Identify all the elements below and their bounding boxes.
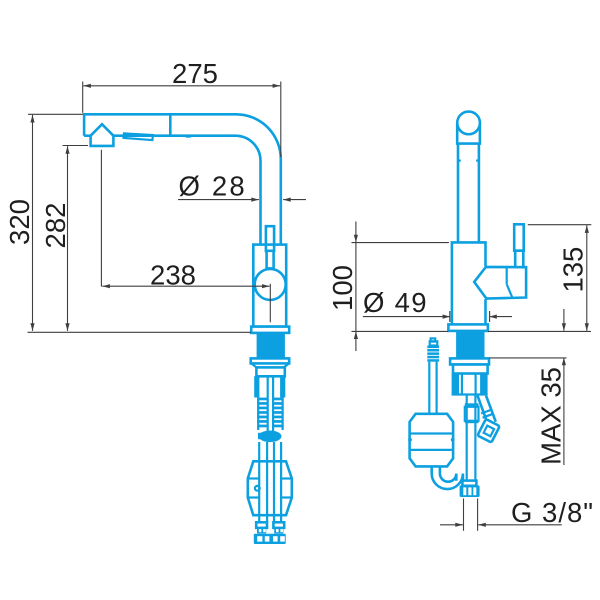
dim 135 arrow top [585,225,589,233]
weight side dots [408,438,412,442]
nut taper right [284,363,289,367]
dim 275 arrow right [273,84,281,88]
pipe left edge [457,144,460,243]
dim G3/8 left tail [440,524,463,526]
dim G3/8 ext right [477,499,479,531]
deck extension right view left segment [352,330,449,332]
left hose cap [430,341,438,345]
dim 275 ext right [280,82,282,158]
svg-text:Ø 49: Ø 49 [363,287,428,318]
svg-text:100: 100 [327,265,358,311]
spout cap circle [457,112,480,135]
dim diameter 49 arrow right-pointing [443,315,451,319]
dim 238 ext vertical from spray head [100,150,102,287]
G3/8 coupling nut [460,485,480,497]
cartridge stem upper [266,226,274,251]
hose connector nut left [256,522,267,528]
dim 135 arrow bottom [585,323,589,331]
dim 238 leader line [102,285,269,287]
dim MAX35 lower tail [563,358,565,465]
dim MAX35 ext line [490,357,567,359]
deck extension line left view [28,331,251,333]
dim diameter 49 line [363,316,450,318]
spray hose crossbars [481,410,492,414]
hose connector block right [274,528,283,534]
dim 238 arrow left [102,284,110,288]
dim 238 center drop line [269,284,271,323]
hose lines below blob and through octagon [258,442,260,522]
left hose tube [428,362,430,414]
cap sides [457,123,480,144]
dim diameter 49 ext tick left [449,311,451,322]
hose clip blob [259,431,282,443]
thread dashes left column [257,398,267,428]
dim 282 arrow top [65,146,69,154]
thread column edges [257,398,259,430]
handle boss [474,267,526,299]
svg-text:282: 282 [40,203,71,249]
dim G3/8 arrow right-pointing [455,523,463,527]
U-bend hose outer [432,466,463,489]
threaded shank (solid) [257,333,285,359]
sleeve bar left [254,376,259,397]
middle tube fitting band [465,403,479,407]
coupling collar [462,481,476,486]
valve circle [255,269,286,300]
deck extension right view right segment [488,330,591,332]
left hose top nub [431,338,436,341]
inner tube lines in sleeve [461,374,463,395]
dim 282 ext top [63,145,89,147]
dim diameter 49 tail right [489,316,512,318]
pipe joint ticks [458,160,461,162]
octagon face line lower right [281,496,292,498]
dim MAX35 arrow up at nut bottom [562,358,566,366]
hose weight barrel [410,414,454,467]
lever handle upper [514,224,524,250]
nut lower section [453,365,488,374]
pipe right edge [478,144,481,243]
dim 100 arrow down [354,235,358,243]
dim diameter 28 line right part [283,199,306,201]
dim diameter 28 arrow left-pointing [283,198,291,202]
svg-text:320: 320 [4,199,35,245]
spray hose diagonal [478,396,489,426]
thread dashes right column [273,398,283,428]
dim 238 arrow right [262,284,270,288]
lever handle lower [515,251,523,268]
mounting nut flange [251,358,290,363]
weight line upper [410,432,454,434]
dim 275 ext left [82,82,84,113]
sleeve bar right [280,376,285,397]
weight line lower [410,449,454,451]
middle tube fitting lower band [465,421,479,424]
boss inner vertical [506,267,508,284]
deck flange [251,327,289,333]
middle tube fitting block [465,407,479,421]
hose connector block left [257,528,266,534]
hose end base [254,534,286,544]
dim 100 ext top [352,242,449,244]
cartridge stem lower [267,251,274,269]
sleeve bar left (side) [452,374,459,395]
shank solid (side view) [456,331,484,359]
dim 320 arrow bottom [30,323,34,331]
boss inner diagonal [507,284,513,298]
dim 135 line [586,225,588,330]
octagon screw circle [255,486,260,491]
dim MAX35 arrow down at deck [562,323,566,331]
dim diameter 49 ext tick right [489,311,491,322]
spout inner outline (bottom edge, inner bend, left pipe edge) [84,136,260,245]
octagon face line lower left [248,496,259,498]
octagon face line upper right [281,477,292,479]
sleeve bar right (side) [480,374,488,395]
octagon face line upper left [248,477,259,479]
dim 282 line [67,146,69,331]
mounting octagon [248,461,292,515]
aerator tick on spout underside [186,136,191,138]
dim diameter 49 arrow left-pointing [489,315,497,319]
svg-text:275: 275 [172,58,218,89]
middle tube [466,395,468,482]
dim 320 arrow top [30,115,34,123]
dim 275 line [83,85,280,87]
left hose ridges [427,346,439,362]
dim G3/8 ext left [463,499,465,531]
dim 275 arrow left [83,84,91,88]
dim MAX35 upper tail [563,309,565,331]
dim 282 arrow bottom [65,323,69,331]
spray hose connector [477,419,499,442]
sleeve bottom line [452,393,488,395]
spray head (pentagon outlet) [91,124,114,146]
dim diameter 28 line left part [178,199,259,201]
dim diameter 28 arrow right-pointing [251,198,259,202]
center tube lines [267,376,269,431]
svg-text:135: 135 [558,247,589,293]
svg-text:G 3/8": G 3/8" [511,497,594,528]
body (right side view) [452,242,486,324]
spout head divider [169,114,172,135]
svg-text:Ø 28: Ø 28 [179,170,247,201]
upper tube section [256,367,284,376]
nut taper left [251,363,256,367]
mounting nut (side view) [450,358,489,364]
dim G3/8 arrow left-pointing [478,523,486,527]
svg-text:238: 238 [150,260,196,291]
dim G3/8 right tail [478,524,562,526]
flange (side view) [448,324,488,331]
dim 320 ext top [28,113,83,115]
svg-text:MAX 35: MAX 35 [535,367,566,465]
spray head button [124,133,153,140]
hose connector nut right [273,522,284,528]
dim 100 arrow up [354,331,358,339]
U-bend hose inner [440,466,456,481]
dim 320 line [32,115,34,331]
faucet body [253,245,286,327]
dim 100 line [355,222,357,352]
dim 135 ext top [528,224,592,226]
spout outer outline (left edge, top edge, outer bend, right pipe edge) [84,114,281,244]
blob side tab [258,433,262,439]
